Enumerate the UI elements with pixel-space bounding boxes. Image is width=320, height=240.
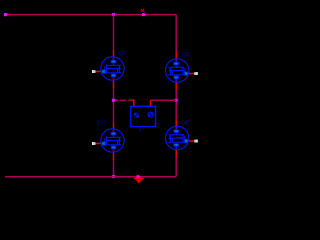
transistor Q8 bottom-right mosfet (166, 120, 198, 158)
node top-left wire end dot (4, 13, 7, 16)
junction top mid (142, 13, 145, 16)
connector J? body (131, 106, 156, 126)
wire mid-left dashed (115, 99, 118, 101)
junction ground attach (137, 175, 140, 178)
svg-text:Q8: Q8 (181, 120, 188, 126)
svg-text:Q5: Q5 (182, 52, 189, 58)
wire left branch lower (113, 160, 115, 177)
wire right branch upper (175, 15, 177, 53)
connector screw terminal 1 (134, 113, 139, 118)
svg-text:Q17: Q17 (97, 120, 107, 126)
svg-text:Q2: Q2 (118, 51, 125, 57)
wire left branch upper (113, 15, 115, 52)
wire connector pin2 stub (150, 100, 152, 106)
transistor Q2 top-left mosfet (92, 51, 124, 89)
ground symbol (134, 178, 144, 183)
no-ERC marker X (141, 9, 144, 12)
svg-text:J?: J? (139, 127, 145, 133)
wire bottom rail (5, 176, 176, 178)
wire left branch mid (113, 87, 115, 123)
junction bottom left-branch (112, 175, 115, 178)
wire connector pin1 stub (132, 100, 134, 106)
connector screw terminal 2 (148, 112, 153, 117)
wire right branch mid (175, 90, 177, 120)
junction top left-branch (112, 13, 115, 16)
wire top rail (5, 14, 177, 16)
transistor Q5 top-right mosfet (166, 53, 198, 91)
junction mid right (175, 99, 178, 102)
wire right branch lower (175, 157, 177, 177)
junction mid left (112, 99, 115, 102)
transistor Q17 bottom-left mosfet (92, 123, 124, 161)
wire mid-right (151, 99, 177, 101)
